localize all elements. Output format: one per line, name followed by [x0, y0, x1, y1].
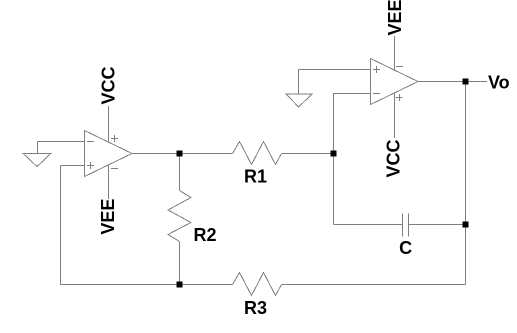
wire U1 inverting input to GND1 — [38, 141, 85, 143]
wire bottom left — [61, 284, 233, 286]
wire U1 VCC supply pin — [108, 106, 110, 142]
wire U2 non-inverting input to GND2 — [299, 69, 371, 71]
resistor R2 — [168, 191, 191, 242]
wire left feedback vertical — [60, 166, 62, 285]
ground GND2 — [286, 70, 312, 108]
svg-text:C: C — [399, 238, 412, 258]
op-amp U1 — [85, 131, 133, 177]
junction node B — [331, 151, 337, 157]
junction node Vo — [463, 79, 469, 85]
resistor R3 — [233, 273, 282, 296]
capacitor C — [403, 214, 409, 237]
resistor R1 — [233, 142, 282, 165]
junction node A — [177, 151, 183, 157]
wire R1 to node B — [282, 153, 334, 155]
wire node B to capacitor — [333, 154, 335, 225]
svg-text:VCC: VCC — [99, 66, 119, 104]
wire U2 VCC supply pin — [394, 93, 396, 138]
svg-text:VEE: VEE — [385, 0, 405, 36]
svg-text:R3: R3 — [244, 298, 267, 318]
svg-text:VCC: VCC — [384, 139, 404, 177]
wire capacitor right lead — [409, 224, 466, 226]
svg-text:R2: R2 — [194, 225, 217, 245]
wire node B to U2 inverting input — [334, 94, 371, 154]
wire U1 output to node A — [132, 153, 233, 155]
wire U2 VEE supply pin — [394, 36, 396, 70]
svg-text:R1: R1 — [244, 166, 267, 186]
svg-text:VEE: VEE — [98, 199, 118, 235]
wire U1 non-inverting input — [61, 165, 85, 167]
op-amp U2 — [371, 59, 419, 105]
wire right vertical — [465, 82, 467, 285]
ground GND1 — [23, 142, 51, 167]
wire R2 bottom lead — [179, 242, 181, 285]
wire R2 top lead — [179, 154, 181, 191]
svg-text:Vo: Vo — [488, 73, 510, 93]
wire U1 VEE supply pin — [108, 165, 110, 199]
junction node A2 (R2 bottom) — [177, 282, 183, 288]
wire capacitor left lead — [334, 224, 403, 226]
wire U2 output to Vo — [418, 81, 487, 83]
wire bottom right — [282, 284, 466, 286]
junction node C (cap right) — [463, 222, 469, 228]
